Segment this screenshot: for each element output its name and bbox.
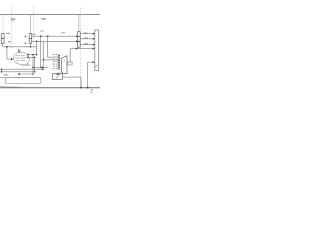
gate arrow Q4 <box>25 43 27 45</box>
wire gate bus 1 <box>32 35 77 37</box>
net label above wire 1a <box>40 31 43 32</box>
wire x70.2 vertical <box>69 49 71 62</box>
junction x81 bus <box>80 87 82 89</box>
MCU flag polygon U2 <box>61 56 67 74</box>
top supply bus <box>0 14 100 16</box>
motor shaft tick 1 <box>17 49 19 52</box>
label D1 <box>84 32 88 33</box>
junction wire2 end <box>34 57 36 59</box>
motor shaft tick 2 <box>19 49 21 52</box>
pin dot 6 <box>58 67 60 68</box>
dashed net stub left <box>11 6 13 51</box>
arrowhead D3 <box>93 44 95 46</box>
diagonal arrow through R1 <box>56 72 61 78</box>
label Q3 <box>32 34 35 35</box>
vertical tap x43.3 <box>42 41 44 69</box>
chain element D2 <box>78 37 81 42</box>
vertical tap x40.7 <box>40 36 42 67</box>
connector J1 tall rect <box>95 30 99 71</box>
dashed net stub middle <box>32 6 34 53</box>
return wire lower y71.8 <box>1 71 34 73</box>
load box (rounded rect) <box>5 78 41 84</box>
motor wire out 1 <box>27 54 37 56</box>
arrowhead y62.2 <box>93 61 95 63</box>
wire feedback y48.6 <box>70 48 94 50</box>
pin label row 4 <box>53 61 55 62</box>
pin dot 3 <box>58 60 60 61</box>
motor cloud M1 <box>14 52 30 65</box>
gate arrow Q3 <box>25 36 27 38</box>
wire y74 with arrow <box>19 73 34 75</box>
dashed net stub right <box>79 8 81 88</box>
net label above wire 1b <box>62 32 66 33</box>
motor text row 3 <box>16 60 20 61</box>
label Q1 <box>6 33 10 34</box>
vertical tap x47.7 <box>47 36 49 57</box>
sense resistor box R1 <box>52 74 62 80</box>
wire sense y67.4 <box>33 66 48 68</box>
vertical x87.7 to ground <box>87 62 89 87</box>
motor text row 1 <box>16 55 20 56</box>
vertical drop x81 <box>80 77 82 88</box>
wire R1 to ground drop <box>63 76 82 78</box>
vertical x34.6 <box>34 57 36 71</box>
junction x87.7 bus <box>87 87 89 89</box>
junction x33 y74 <box>32 73 34 75</box>
junction y41 x36 <box>36 41 38 43</box>
pin label row 2 <box>53 56 55 57</box>
arrowhead wire out 1 <box>27 54 29 56</box>
label below bus row1 <box>91 89 93 90</box>
motor wire out 2 <box>27 56 35 58</box>
wire to motor left <box>7 48 11 60</box>
junction node B <box>30 46 32 48</box>
wire y62.2 to connector <box>88 61 95 63</box>
pin label row 1 <box>52 54 55 55</box>
corner blob left <box>1 69 3 71</box>
pin label row 6 <box>53 66 55 67</box>
wire drain Q3 to bus <box>29 15 31 34</box>
series element box above U2 <box>68 62 72 65</box>
transistor Q1 body <box>1 34 4 39</box>
arrowhead gate 2 <box>76 40 78 42</box>
wire drain Q1 to bus <box>2 15 4 34</box>
left turn vertical <box>0 69 2 72</box>
arrowhead D1 <box>93 33 95 35</box>
IC U1 pin rail <box>58 55 60 71</box>
junction x33 y67.4 <box>32 67 34 69</box>
junction x43.3 y59.9 <box>42 59 44 61</box>
wire chain top to bus <box>78 15 80 32</box>
arrowhead wire out 2 <box>27 56 29 58</box>
junction y48.6 <box>76 48 78 50</box>
transistor Q2 body <box>1 39 4 44</box>
junction wire1-vertical <box>32 54 34 56</box>
wire chain bottom <box>78 47 80 48</box>
ground bus taper left <box>0 86 26 89</box>
label Q2 <box>8 41 11 42</box>
label D3 <box>84 43 88 44</box>
vertical tap x36.5 <box>36 41 38 54</box>
pin dot 1 <box>58 55 60 56</box>
junction wire1 end <box>36 54 38 56</box>
arrowhead y74 <box>17 73 19 75</box>
pin label row 5 <box>52 64 55 65</box>
chain element D1 <box>78 32 81 37</box>
wire D2 to connector <box>80 38 94 40</box>
junction y36 x40 <box>40 35 42 37</box>
arrowhead y48.6 <box>93 48 95 50</box>
wire gate bus 2 <box>32 40 77 42</box>
wire source Q4 down <box>29 43 31 47</box>
arrowhead gate 1 <box>76 35 78 37</box>
junction y36 x47 <box>47 35 49 37</box>
connector pin tick <box>95 65 98 67</box>
junction x34.6 y71.8 <box>34 71 36 73</box>
wire pin feed y59.9 <box>43 59 59 61</box>
arrowhead into motor <box>11 58 14 60</box>
arrowhead D2 <box>93 38 95 40</box>
transistor Q4 body <box>29 38 32 43</box>
arrowhead diag R1 <box>56 72 59 75</box>
pin dot 5 <box>58 65 60 66</box>
wire D1 to connector <box>80 33 94 35</box>
wire pin feed y57.2 <box>48 56 59 58</box>
pin label row 7 <box>52 68 55 69</box>
label below bus row2 <box>91 92 93 93</box>
ground bus <box>0 87 100 89</box>
pin label row 3 <box>52 59 55 60</box>
net label VM middle <box>41 18 46 20</box>
junction node A <box>6 46 8 48</box>
label D2 <box>84 38 88 39</box>
wire phase node horizontal <box>3 46 37 48</box>
chain element D3 <box>78 42 81 48</box>
wire source Q2 down <box>2 44 4 47</box>
transistor Q3 body <box>29 34 32 39</box>
pin dot 2 <box>58 57 60 58</box>
corner blob left2 <box>1 71 3 73</box>
motor text row 2 <box>15 58 19 59</box>
return wire upper y69.2 <box>1 68 43 70</box>
pin1 mark inside U2 <box>64 60 65 61</box>
net label VM left <box>11 18 15 20</box>
junction end y69.2 <box>42 68 44 70</box>
pin dot 4 <box>58 62 60 63</box>
wire D3 to connector <box>80 44 94 46</box>
label small upper <box>11 20 14 21</box>
label under motor <box>22 64 30 66</box>
wire ground feed y77.6 <box>0 77 41 79</box>
arrow blob on y77.6 <box>18 77 21 79</box>
label inside load box <box>4 74 9 75</box>
vertical x33 <box>32 55 34 74</box>
arrow on sense wire <box>41 67 43 68</box>
